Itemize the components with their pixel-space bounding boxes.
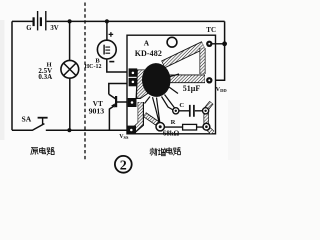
trace: TC pad down along right edge (hatched) <box>200 48 206 74</box>
divider: dashed line between old and new circuit <box>84 3 86 160</box>
trace: pads P1/P2 to blob (hatched) <box>136 70 149 100</box>
battery G 3V <box>26 11 58 32</box>
switch SA <box>22 115 48 131</box>
svg-text:A: A <box>144 38 150 47</box>
trace: blob to TC pad (hatched) <box>163 45 204 65</box>
wire: left vertical rail <box>11 21 13 130</box>
wire: right vertical rail down to Vdd <box>212 21 225 80</box>
svg-text:2: 2 <box>120 158 127 173</box>
wire: TC pad to right rail <box>212 43 225 45</box>
pad P3 (base) <box>128 98 137 107</box>
node: top junction of sounder branch <box>105 19 109 23</box>
svg-text:0.3A: 0.3A <box>38 73 52 81</box>
pad P1 (sounder) <box>129 68 138 76</box>
figure number 2 in circle <box>115 156 132 173</box>
node: bottom junction of lamp branch <box>67 128 71 132</box>
pad: R left <box>156 123 164 131</box>
trace: diagonal to R left pad (hatched) <box>145 115 158 124</box>
svg-text:C: C <box>179 102 184 109</box>
trace: R right pad to bottom corner (hatched) <box>208 128 213 133</box>
wire: top rail from left corner to right corner <box>12 20 33 22</box>
label: - polarity of sounder <box>109 61 114 63</box>
node: junction on right rail <box>222 41 227 46</box>
pad P4 (Vss) <box>127 126 136 135</box>
label: 新增电路 (added circuit) <box>150 147 181 156</box>
trace: C right pad up-right (hatched) <box>206 103 212 110</box>
label: + polarity of sounder <box>109 32 114 37</box>
svg-text:KD-482: KD-482 <box>135 49 162 58</box>
svg-text:HC-12: HC-12 <box>85 64 102 70</box>
pad: C left <box>173 108 179 114</box>
wire: base lead to PCB pad P3 <box>117 101 128 103</box>
transistor VT 9013 <box>89 94 117 130</box>
wire: sounder upper lead <box>106 21 108 40</box>
trace: C right pad down to R right pad (hatched) <box>203 112 208 126</box>
svg-text:51μF: 51μF <box>183 84 201 93</box>
wire: sounder lower lead to PCB pad P1 <box>107 59 129 72</box>
COB blob (chip under epoxy) <box>141 62 179 122</box>
svg-text:VDD: VDD <box>216 86 228 93</box>
lamp H 2.5V 0.3A <box>38 60 78 81</box>
wire: bottom rail from switch to PCB Vss pad <box>46 129 128 131</box>
trace: pad P3 down to Vss pad (hatched) <box>134 102 141 130</box>
pad: Vdd <box>206 77 212 83</box>
capacitor C <box>179 102 203 117</box>
wire: bottom rail left of switch <box>12 129 33 131</box>
mounting hole <box>167 37 177 47</box>
svg-text:G: G <box>26 25 32 32</box>
pad P2 (collector) <box>129 78 138 86</box>
svg-text:9013: 9013 <box>89 107 105 116</box>
pad: C right <box>203 108 209 114</box>
trace: blob to Vdd pad (hatched) <box>168 75 205 84</box>
svg-text:SA: SA <box>22 115 32 124</box>
node: top junction of lamp branch <box>68 19 72 23</box>
resistor R <box>163 119 204 138</box>
pad: TC <box>206 41 212 47</box>
sounder B HC-12 <box>85 40 117 70</box>
wire: lamp branch upper <box>69 21 71 60</box>
wire: collector lead to PCB pad P2 <box>109 84 129 95</box>
wire: lamp branch lower <box>69 78 71 130</box>
svg-text:3V: 3V <box>50 25 58 32</box>
svg-text:R: R <box>171 119 176 126</box>
svg-text:VSS: VSS <box>119 134 129 140</box>
PCB board KD-482 outline <box>127 35 216 134</box>
svg-text:68kΩ: 68kΩ <box>163 130 180 137</box>
label: 原电路 (original circuit) <box>31 147 54 155</box>
svg-text:TC: TC <box>206 26 216 34</box>
pad: R right <box>203 123 210 130</box>
